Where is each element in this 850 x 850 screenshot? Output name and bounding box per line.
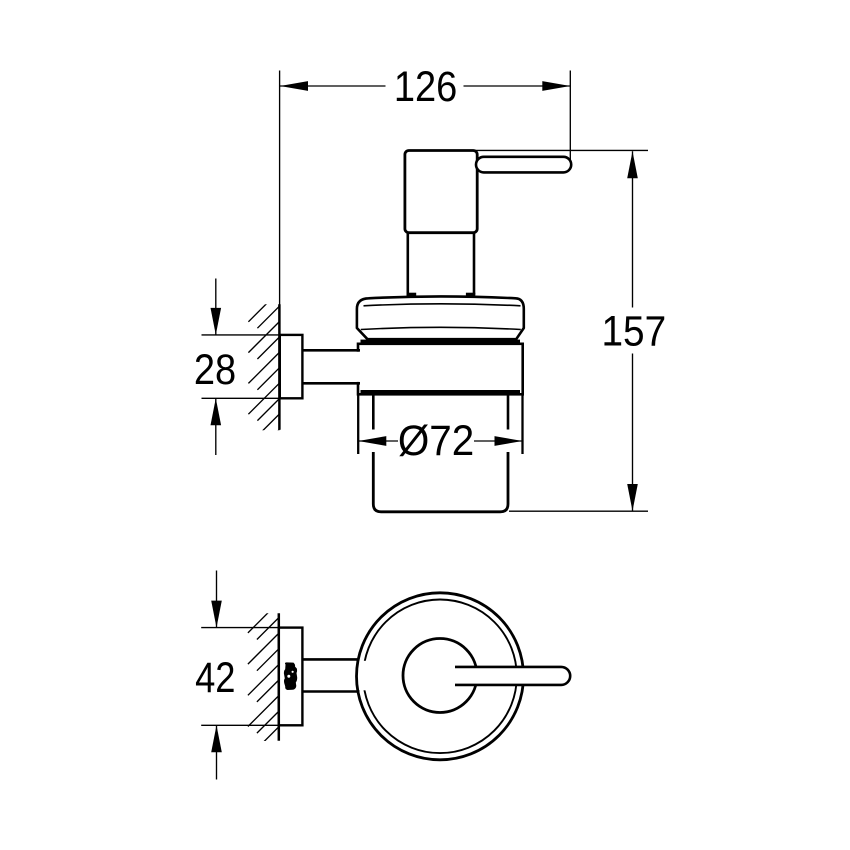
dim 42 bottom arrowhead (points up) xyxy=(211,725,222,752)
dim 157 bottom arrowhead xyxy=(627,484,638,511)
dim 157 dimension line xyxy=(632,151,634,307)
wall hatching (side view) xyxy=(248,291,279,452)
wall hatching (plan) xyxy=(248,602,279,764)
dim 28 bottom arrowhead (points up) xyxy=(211,398,222,425)
pump head (side view) xyxy=(405,151,477,233)
svg-text:42: 42 xyxy=(195,654,235,702)
pump spout pill (side view) xyxy=(476,157,571,173)
wall line (plan) xyxy=(278,613,281,740)
arm (side view) xyxy=(303,352,364,382)
dim 126 left extension line xyxy=(279,71,281,305)
glass outer wall left stub xyxy=(357,394,359,454)
glass outer wall right stub xyxy=(521,394,523,454)
bottle shoulder (side view) xyxy=(357,296,524,339)
dim Ø72 right arrowhead xyxy=(495,436,523,446)
svg-text:28: 28 xyxy=(194,345,236,394)
dim 28 bottom extension line xyxy=(202,397,280,399)
wall bracket (side view) xyxy=(280,335,303,398)
pump neck (side view) xyxy=(408,233,474,295)
wall bracket (plan) xyxy=(279,628,303,726)
dim 42 top arrowhead (points down) xyxy=(211,601,222,628)
dim Ø72 left arrowhead xyxy=(358,436,386,446)
dim 28 top extension line xyxy=(202,334,280,336)
dim 28 top arrowhead (points down) xyxy=(211,308,222,335)
pump cap circle (plan) xyxy=(403,639,477,713)
svg-text:126: 126 xyxy=(394,62,457,111)
dim 126 dimension line xyxy=(280,85,386,87)
dim 126 left arrowhead xyxy=(280,81,308,91)
arm (plan) white fill xyxy=(303,661,368,691)
wall line (side view) xyxy=(278,304,281,429)
holder ring (side view) xyxy=(358,344,523,395)
neck left foot xyxy=(407,293,417,297)
glass inner wall left (upper segment) xyxy=(372,394,375,429)
mounting screw blob xyxy=(284,662,297,690)
dim 42 bottom extension line xyxy=(201,724,279,726)
dim Ø72 dimension line xyxy=(358,440,398,442)
dim 157 top arrowhead xyxy=(627,151,638,178)
shoulder inner line lower xyxy=(361,327,521,329)
svg-text:157: 157 xyxy=(601,307,666,355)
neck right foot xyxy=(466,293,475,297)
dim 42 dimension line top tail xyxy=(216,571,218,628)
dim 28 dimension line top tail xyxy=(215,279,217,335)
dim 157 top extension line xyxy=(474,149,648,151)
glass inner wall right (upper segment) xyxy=(507,394,510,429)
dim 157 bottom extension line xyxy=(509,510,648,512)
shoulder inner line upper xyxy=(364,304,521,306)
holder inner circle (plan) xyxy=(363,600,517,754)
arm (plan) top edge xyxy=(302,658,359,661)
ring top dark band xyxy=(361,340,521,345)
arm (plan) bottom edge xyxy=(302,690,359,693)
glass lower body with rounded bottom xyxy=(373,452,508,512)
spout bar (plan) xyxy=(455,667,570,685)
ring bottom dark band xyxy=(361,390,521,395)
dim 126 right arrowhead xyxy=(542,81,570,91)
dim 28 dimension line bottom tail xyxy=(215,398,217,455)
svg-text:Ø72: Ø72 xyxy=(398,416,474,464)
dim 42 dimension line bottom tail xyxy=(216,725,218,779)
dim 126 right extension line xyxy=(569,71,571,162)
holder outer circle (plan) xyxy=(357,593,524,760)
dim 42 top extension line xyxy=(201,627,279,629)
